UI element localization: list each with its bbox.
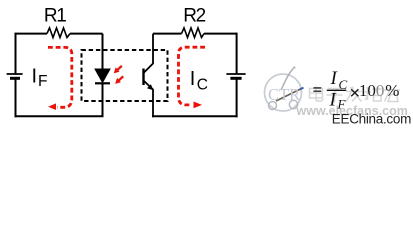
battery B1 short thick plate <box>10 77 20 80</box>
wire: right loop top right <box>204 33 237 35</box>
watermark logo stem diagonal <box>276 89 301 101</box>
current path IF (red dashed) <box>48 47 72 107</box>
wire: LED cathode <box>102 83 104 116</box>
svg-text:0: 0 <box>376 81 385 100</box>
wire: LED anode <box>102 34 104 70</box>
watermark logo node circle left <box>269 102 277 110</box>
svg-text:R2: R2 <box>183 5 205 26</box>
formula multiply sign <box>351 89 358 96</box>
optocoupler box <box>82 50 168 101</box>
watermark logo wisp <box>281 67 295 90</box>
current path IC (red dashed) <box>179 47 206 105</box>
wire: left loop top <box>16 33 48 35</box>
svg-text:I: I <box>32 65 38 87</box>
watermark logo blue accent <box>300 88 304 90</box>
watermark logo circle <box>265 74 302 111</box>
svg-text:10: 10 <box>359 81 376 100</box>
wire: left vertical lower <box>15 78 17 117</box>
resistor R2 <box>182 28 205 38</box>
svg-text:F: F <box>38 73 47 90</box>
wire: right loop bottom <box>152 115 238 117</box>
resistor R1 <box>47 28 70 38</box>
wire: top to LED <box>70 33 103 35</box>
watermark logo node circle right <box>289 100 297 108</box>
svg-text:C: C <box>197 77 208 94</box>
arrowhead IC <box>194 102 203 109</box>
phototransistor collector lead <box>144 34 154 73</box>
phototransistor emitter arrowhead <box>147 84 153 90</box>
phototransistor Q1 base bar <box>142 69 144 86</box>
light arrow 2 <box>115 76 123 84</box>
wire: left vertical upper <box>15 33 17 74</box>
char shao <box>367 87 369 100</box>
svg-text:F: F <box>337 97 347 112</box>
char dian <box>310 89 323 99</box>
battery B2 long plate <box>226 73 245 75</box>
LED D1 cathode bar <box>95 82 110 84</box>
char fa <box>347 91 362 93</box>
char zi <box>328 88 342 90</box>
svg-text:CTR: CTR <box>268 85 300 104</box>
phototransistor emitter lead <box>144 81 154 118</box>
light arrow 1 <box>114 66 122 74</box>
wire: right vertical upper <box>236 33 238 74</box>
formula equals sign <box>313 87 321 89</box>
svg-text:EEChina.com: EEChina.com <box>332 112 411 127</box>
wire: right loop top left <box>153 33 182 35</box>
LED D1 triangle <box>95 69 110 83</box>
svg-text:%: % <box>385 81 399 100</box>
formula fraction bar <box>327 89 347 91</box>
battery B2 short thick plate <box>230 77 241 80</box>
svg-text:R1: R1 <box>44 5 66 26</box>
arrowhead IF <box>48 103 56 110</box>
wire: left loop bottom <box>15 115 104 117</box>
svg-text:I: I <box>330 68 339 89</box>
wire: right vertical lower <box>236 78 238 117</box>
char you <box>384 89 400 91</box>
battery B1 long plate <box>7 73 23 75</box>
watermark chinese text (drawn strokes) <box>310 86 401 102</box>
svg-text:I: I <box>190 68 196 90</box>
